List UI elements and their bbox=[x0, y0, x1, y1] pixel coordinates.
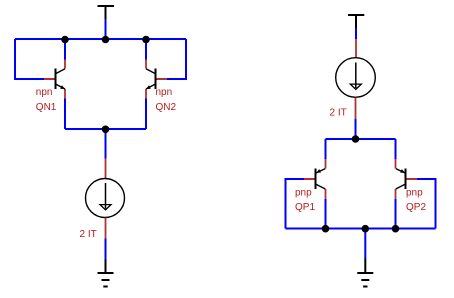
junction node QN1 collector bbox=[61, 36, 69, 44]
wire ground stem right bbox=[364, 229, 366, 259]
wire QP2 collector down bbox=[395, 199, 397, 229]
transistor QP1 bbox=[304, 159, 326, 199]
wire right loop QN2 base bbox=[167, 39, 186, 79]
junction node QN2 collector bbox=[142, 36, 150, 44]
wire top rail right circuit bbox=[326, 138, 396, 140]
transistor QP2 bbox=[396, 159, 418, 199]
wire emitter join rail bbox=[65, 128, 146, 130]
power bar (left rail supply) bbox=[98, 6, 115, 19]
junction node QP2 collector bbox=[392, 225, 400, 233]
svg-text:QN1: QN1 bbox=[36, 102, 57, 113]
svg-text:QP2: QP2 bbox=[406, 202, 426, 213]
transistor QN2 bbox=[146, 60, 167, 99]
wire QN2 collector bbox=[145, 39, 147, 60]
wire current source to top rail right bbox=[355, 119, 357, 139]
wire power stem right bbox=[355, 28, 357, 39]
wire QP1 emitter bbox=[325, 139, 327, 159]
junction node QP1 collector bbox=[322, 225, 330, 233]
svg-text:npn: npn bbox=[36, 87, 53, 98]
wire power stem to top rail bbox=[105, 19, 107, 39]
wire QP1 collector down bbox=[325, 199, 327, 229]
junction node power bbox=[102, 36, 110, 44]
wire QP2 emitter bbox=[395, 139, 397, 159]
wire left loop QN1 base bbox=[15, 39, 44, 79]
wire QP2 base loop bbox=[417, 179, 436, 229]
junction node emitters bbox=[102, 126, 110, 134]
wire tail down to current source bbox=[105, 129, 107, 159]
svg-text:2 IT: 2 IT bbox=[80, 229, 97, 240]
ground right bbox=[357, 259, 373, 287]
power bar (right rail supply) bbox=[348, 15, 364, 28]
current source I1 (left tail) bbox=[86, 159, 125, 239]
wire QN2 emitter down bbox=[145, 99, 147, 130]
svg-text:2 IT: 2 IT bbox=[330, 108, 347, 119]
wire top rail left circuit bbox=[15, 38, 186, 40]
junction node ground bbox=[362, 225, 370, 233]
transistor QN1 bbox=[44, 60, 65, 99]
ground left bbox=[98, 260, 114, 287]
svg-text:pnp: pnp bbox=[406, 188, 423, 199]
wire QN1 collector bbox=[64, 39, 66, 60]
svg-text:npn: npn bbox=[156, 87, 173, 98]
junction node tail right bbox=[352, 135, 360, 143]
wire QP1 base loop bbox=[286, 179, 305, 229]
svg-text:QP1: QP1 bbox=[295, 202, 315, 213]
wire QN1 emitter down bbox=[64, 99, 66, 130]
svg-text:pnp: pnp bbox=[295, 188, 312, 199]
wire bottom rail right circuit bbox=[286, 228, 436, 230]
current source I2 (right tail) bbox=[336, 39, 376, 119]
wire current source to ground bbox=[105, 239, 107, 260]
svg-text:QN2: QN2 bbox=[156, 102, 177, 113]
